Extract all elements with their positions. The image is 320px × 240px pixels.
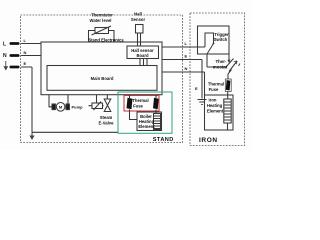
svg-text:Water level: Water level [90,18,112,23]
svg-text:N: N [185,66,188,71]
svg-text:Thermal: Thermal [208,82,224,87]
svg-text:E: E [195,86,198,91]
svg-text:Fuse: Fuse [133,103,143,108]
svg-text:Ther-: Ther- [216,59,228,64]
svg-text:Heating: Heating [207,103,223,108]
svg-text:Main Board: Main Board [91,76,114,81]
svg-text:Fuse: Fuse [209,87,219,92]
svg-text:mostat: mostat [213,65,228,70]
svg-text:Trigger: Trigger [214,32,229,37]
svg-text:Thermal: Thermal [132,98,148,103]
svg-text:Steam: Steam [100,115,113,120]
svg-text:Switch: Switch [214,37,228,42]
svg-text:Board: Board [136,53,149,58]
svg-text:Element: Element [138,124,155,129]
svg-text:E: E [24,61,27,66]
svg-text:Stand Electronics: Stand Electronics [88,38,124,43]
svg-text:N: N [24,50,27,55]
svg-text:E: E [185,54,188,59]
svg-text:Sensor: Sensor [131,17,146,22]
svg-text:N: N [3,53,7,59]
svg-text:Thermistor: Thermistor [91,13,113,18]
svg-text:L: L [3,41,6,47]
svg-text:E-Valve: E-Valve [99,120,115,125]
svg-text:Pump: Pump [72,104,84,109]
svg-text:Element: Element [207,109,224,114]
svg-text:Hall: Hall [134,12,142,17]
svg-text:Iron: Iron [209,98,217,103]
svg-text:STAND: STAND [153,137,174,143]
svg-text:IRON: IRON [199,137,218,144]
